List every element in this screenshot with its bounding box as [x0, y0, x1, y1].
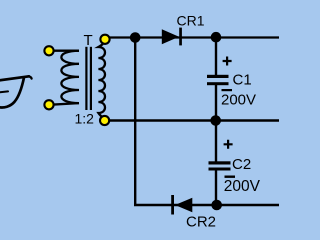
- diode CR2: [171, 195, 216, 230]
- minus sign: [222, 89, 233, 91]
- plate bottom: [207, 82, 229, 85]
- core line 1: [85, 47, 87, 110]
- svg-text:200V: 200V: [224, 178, 261, 195]
- wire: bottom rail: [134, 204, 279, 206]
- wire: primary bottom lead: [49, 103, 79, 105]
- diode CR1: [162, 12, 205, 45]
- core line 2: [90, 47, 92, 110]
- transformer T: [49, 32, 105, 127]
- primary winding of T: [61, 51, 79, 103]
- capacitor C2: [209, 140, 261, 195]
- junction node: top rail / left vertical: [130, 32, 141, 43]
- plus sign: [224, 140, 233, 149]
- terminal: primary top: [44, 46, 53, 55]
- plate top: [209, 161, 231, 164]
- svg-text:C1: C1: [233, 71, 252, 88]
- svg-text:CR2: CR2: [186, 213, 216, 228]
- wire: capacitor column: [215, 38, 217, 76]
- svg-text:T: T: [84, 32, 93, 49]
- svg-text:C2: C2: [232, 156, 251, 173]
- svg-text:200V: 200V: [221, 91, 256, 108]
- plate bottom: [209, 168, 231, 171]
- secondary winding of T: [98, 40, 105, 121]
- svg-text:CR1: CR1: [177, 12, 205, 28]
- terminal: secondary bottom: [100, 116, 109, 125]
- capacitor C1: [207, 57, 256, 109]
- wire: top rail: [105, 36, 279, 38]
- plate top: [207, 75, 229, 78]
- terminal: secondary top: [100, 35, 109, 44]
- junction node: top rail / C1: [211, 32, 222, 43]
- terminal: primary bottom: [44, 100, 53, 109]
- partial italic letter glyph at left edge: [0, 76, 32, 107]
- svg-text:1:2: 1:2: [75, 111, 95, 127]
- plus sign: [223, 57, 232, 66]
- junction node: mid rail / C1-C2: [210, 115, 221, 126]
- junction node: bottom rail / C2: [211, 200, 222, 211]
- wire: left vertical from top rail to bottom rail: [134, 38, 136, 206]
- wire: mid rail: [105, 119, 280, 121]
- wire: primary top lead: [49, 50, 79, 52]
- minus sign: [225, 176, 236, 178]
